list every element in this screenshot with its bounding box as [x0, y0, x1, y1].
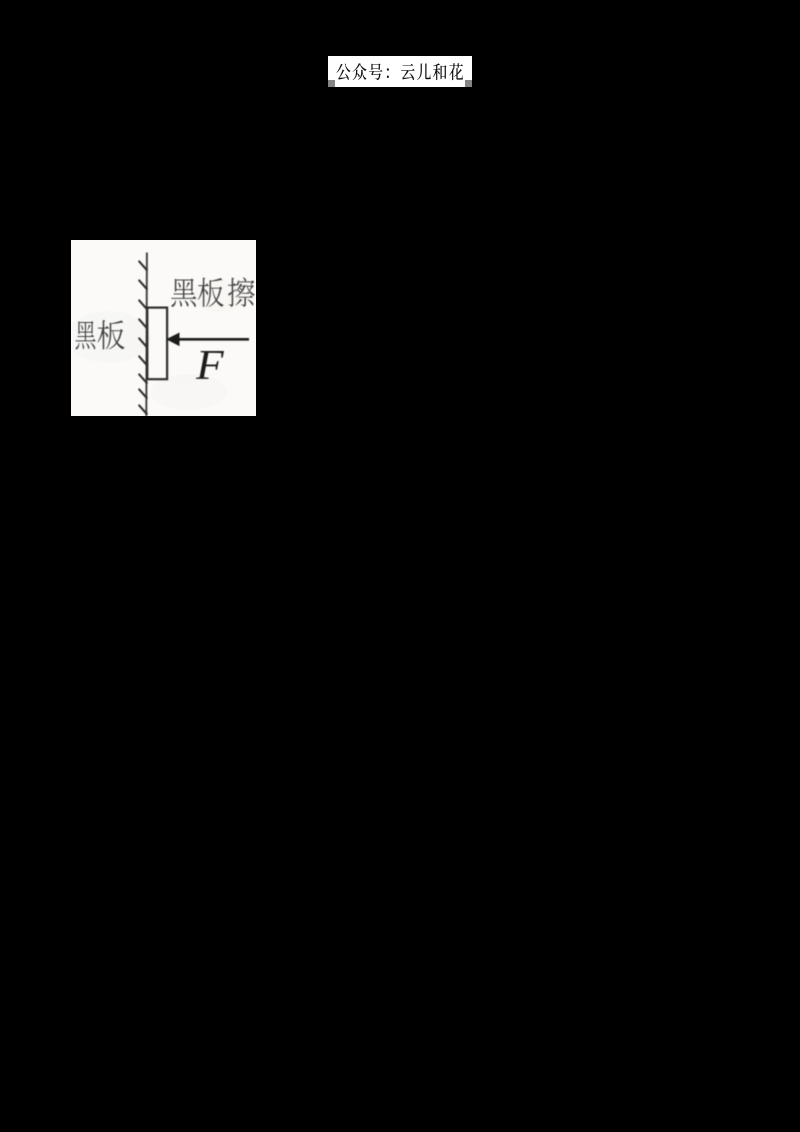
- eraser rectangle: [147, 308, 167, 380]
- wall hatch marks: [139, 261, 147, 414]
- force arrow head: [167, 333, 179, 345]
- selection handle bottom-left: [328, 80, 335, 87]
- blackboard wall line: [145, 253, 148, 417]
- force arrow shaft: [177, 338, 249, 341]
- label 黑板擦 (eraser): [171, 277, 255, 307]
- svg-text:F: F: [195, 342, 224, 388]
- label 黑板 (blackboard): [75, 320, 124, 349]
- physics figure: eraser pressed on blackboard by force F: [71, 240, 256, 416]
- watermark text box: 公众号：云儿和花: [328, 56, 472, 88]
- selection handle bottom-right: [465, 80, 472, 87]
